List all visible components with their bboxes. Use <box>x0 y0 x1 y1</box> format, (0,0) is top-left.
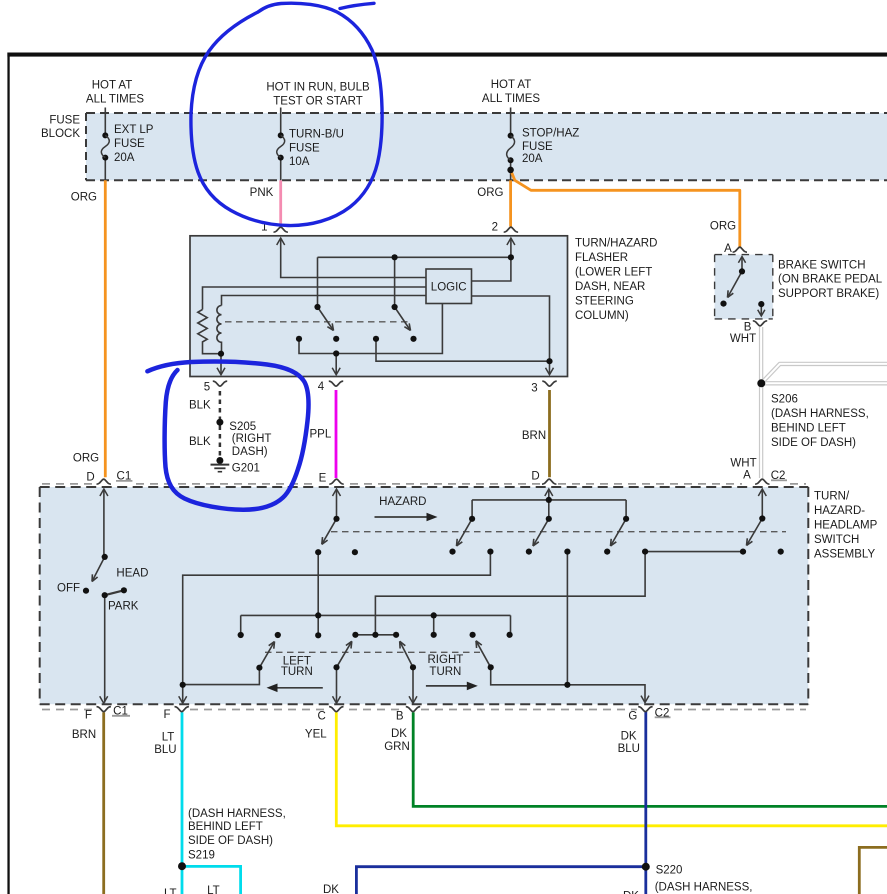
svg-text:SUPPORT BRAKE): SUPPORT BRAKE) <box>778 288 879 300</box>
svg-text:BLU: BLU <box>154 744 176 756</box>
svg-text:BRN: BRN <box>522 430 546 442</box>
svg-text:10A: 10A <box>289 156 310 168</box>
svg-text:HEADLAMP: HEADLAMP <box>814 520 878 532</box>
svg-text:TURN: TURN <box>281 666 313 678</box>
svg-text:20A: 20A <box>114 152 135 164</box>
svg-text:20A: 20A <box>522 153 543 165</box>
svg-text:D: D <box>531 471 539 483</box>
svg-text:(RIGHT: (RIGHT <box>232 433 272 445</box>
svg-text:BEHIND LEFT: BEHIND LEFT <box>188 821 263 833</box>
svg-text:A: A <box>724 243 732 255</box>
svg-text:C1: C1 <box>113 706 128 718</box>
svg-text:PNK: PNK <box>250 187 274 199</box>
svg-text:B: B <box>396 710 404 722</box>
svg-text:HAZARD-: HAZARD- <box>814 505 865 517</box>
svg-text:TURN-B/U: TURN-B/U <box>289 129 344 141</box>
svg-text:DASH, NEAR: DASH, NEAR <box>575 281 645 293</box>
svg-text:3: 3 <box>531 383 537 395</box>
svg-text:HEAD: HEAD <box>116 568 148 580</box>
svg-text:SIDE OF DASH): SIDE OF DASH) <box>188 835 273 847</box>
svg-text:S205: S205 <box>229 421 256 433</box>
svg-text:A: A <box>743 470 751 482</box>
svg-text:D: D <box>86 472 94 484</box>
svg-text:FUSE: FUSE <box>522 141 553 153</box>
svg-text:LOGIC: LOGIC <box>431 281 467 293</box>
svg-text:G: G <box>628 710 637 722</box>
svg-text:DASH): DASH) <box>232 446 268 458</box>
svg-text:C2: C2 <box>771 470 786 482</box>
svg-text:BEHIND LEFT: BEHIND LEFT <box>771 422 846 434</box>
svg-text:G201: G201 <box>232 462 260 474</box>
svg-text:TURN/: TURN/ <box>814 490 850 502</box>
svg-text:GRN: GRN <box>384 741 410 753</box>
svg-text:C: C <box>317 710 325 722</box>
svg-text:ORG: ORG <box>710 221 736 233</box>
svg-text:ORG: ORG <box>73 453 99 465</box>
svg-text:S220: S220 <box>656 865 683 877</box>
svg-text:STEERING: STEERING <box>575 295 634 307</box>
svg-text:S206: S206 <box>771 393 798 405</box>
svg-text:SIDE OF DASH): SIDE OF DASH) <box>771 437 856 449</box>
svg-text:YEL: YEL <box>305 728 327 740</box>
svg-text:LT: LT <box>162 732 175 744</box>
svg-text:S219: S219 <box>188 850 215 862</box>
svg-text:FLASHER: FLASHER <box>575 252 628 264</box>
svg-text:OFF: OFF <box>57 583 80 595</box>
svg-text:BRN: BRN <box>72 729 96 741</box>
svg-text:ALL TIMES: ALL TIMES <box>482 93 540 105</box>
svg-text:ASSEMBLY: ASSEMBLY <box>814 549 875 561</box>
svg-text:HOT AT: HOT AT <box>491 79 531 91</box>
svg-text:BLK: BLK <box>189 400 211 412</box>
svg-text:DK: DK <box>623 891 639 894</box>
svg-text:E: E <box>319 473 327 485</box>
svg-text:B: B <box>744 322 752 334</box>
svg-text:HAZARD: HAZARD <box>379 496 426 508</box>
svg-text:HOT IN RUN, BULB: HOT IN RUN, BULB <box>266 82 370 94</box>
svg-text:ALL TIMES: ALL TIMES <box>86 94 144 106</box>
svg-text:(DASH HARNESS,: (DASH HARNESS, <box>655 881 753 893</box>
svg-text:SWITCH: SWITCH <box>814 534 859 546</box>
svg-text:C2: C2 <box>655 708 670 720</box>
svg-text:TURN: TURN <box>429 666 461 678</box>
svg-text:WHT: WHT <box>730 458 756 470</box>
svg-text:DK: DK <box>323 884 339 894</box>
svg-text:TEST OR START: TEST OR START <box>273 96 362 108</box>
svg-text:PPL: PPL <box>310 429 332 441</box>
svg-text:4: 4 <box>318 381 325 393</box>
svg-text:BLU: BLU <box>618 743 640 755</box>
svg-text:(LOWER LEFT: (LOWER LEFT <box>575 266 652 278</box>
svg-text:STOP/HAZ: STOP/HAZ <box>522 128 579 140</box>
svg-text:F: F <box>85 710 92 722</box>
svg-text:COLUMN): COLUMN) <box>575 310 629 322</box>
svg-text:BLOCK: BLOCK <box>41 128 80 140</box>
svg-text:C1: C1 <box>117 471 132 483</box>
svg-text:DK: DK <box>621 731 637 743</box>
svg-text:ORG: ORG <box>71 192 97 204</box>
svg-text:RIGHT: RIGHT <box>428 654 464 666</box>
svg-text:(ON BRAKE PEDAL: (ON BRAKE PEDAL <box>778 274 883 286</box>
svg-text:2: 2 <box>492 222 498 234</box>
svg-text:TURN/HAZARD: TURN/HAZARD <box>575 237 657 249</box>
svg-text:HOT AT: HOT AT <box>92 80 132 92</box>
svg-text:ORG: ORG <box>477 187 503 199</box>
svg-text:BLK: BLK <box>189 436 211 448</box>
svg-text:BRAKE SWITCH: BRAKE SWITCH <box>778 259 866 271</box>
svg-text:WHT: WHT <box>730 333 756 345</box>
svg-text:PARK: PARK <box>108 601 139 613</box>
svg-text:5: 5 <box>204 382 210 394</box>
svg-text:FUSE: FUSE <box>289 143 320 155</box>
svg-text:DK: DK <box>391 728 407 740</box>
svg-text:LT: LT <box>207 885 220 894</box>
svg-text:FUSE: FUSE <box>114 138 145 150</box>
svg-text:LT: LT <box>164 888 177 894</box>
svg-text:(DASH HARNESS,: (DASH HARNESS, <box>188 808 286 820</box>
svg-text:FUSE: FUSE <box>49 115 80 127</box>
svg-text:(DASH HARNESS,: (DASH HARNESS, <box>771 408 869 420</box>
svg-text:F: F <box>163 709 170 721</box>
svg-text:EXT LP: EXT LP <box>114 124 154 136</box>
